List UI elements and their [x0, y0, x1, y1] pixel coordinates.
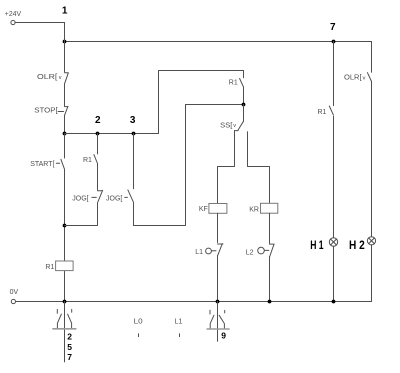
- wire riser node3: [158, 71, 160, 134]
- wire branch node2 down: [97, 134, 99, 226]
- svg-text:KR: KR: [249, 206, 259, 213]
- svg-text:0V: 0V: [10, 289, 19, 296]
- wire SS right throw to KR: [248, 132, 270, 204]
- wire jog branch to riser: [134, 225, 186, 227]
- junction dot node 3: [132, 132, 136, 136]
- svg-text:OLR[: OLR[: [37, 74, 57, 81]
- svg-text:L1: L1: [175, 319, 183, 326]
- limit switch L1 actuator circle: [206, 248, 212, 254]
- wire SS left throw to KF: [218, 131, 235, 204]
- wire SS feed: [186, 104, 244, 106]
- svg-text:1: 1: [62, 6, 68, 17]
- junction dot SS common: [242, 103, 246, 107]
- svg-text:R1: R1: [229, 80, 238, 87]
- wire branch node3 down: [133, 134, 135, 226]
- svg-text:H 1: H 1: [310, 238, 324, 252]
- wire top link: [159, 70, 244, 72]
- svg-text:START[: START[: [30, 161, 54, 168]
- wire riser right: [185, 105, 187, 226]
- contact JOG NC: [92, 190, 103, 202]
- connector X2 bar: [207, 328, 229, 330]
- wire parallel join left: [65, 225, 98, 227]
- junction dot 0V H1: [332, 300, 336, 304]
- connector X2 right pin: [219, 310, 225, 328]
- svg-text:R1: R1: [83, 157, 92, 164]
- junction dot node 7: [332, 40, 336, 44]
- wire left rail upper: [64, 23, 66, 134]
- junction dot node 2 left: [63, 132, 67, 136]
- wire R1 mid branch: [243, 71, 245, 105]
- svg-text:3: 3: [130, 115, 136, 126]
- contact JOG NO: [125, 190, 134, 202]
- limit switch L2 actuator circle: [258, 247, 265, 254]
- connector X1 tail wire: [64, 302, 66, 362]
- junction dot 0V KR: [268, 300, 272, 304]
- connector X1 right pin: [68, 309, 72, 328]
- svg-text:L2: L2: [246, 249, 254, 256]
- junction dot node 2: [96, 132, 100, 136]
- contact R1 mid (NO): [240, 79, 244, 87]
- limit switch L2 (NC): [265, 244, 275, 256]
- svg-text:v: v: [59, 75, 62, 81]
- svg-text:v: v: [233, 123, 236, 129]
- svg-text:v: v: [363, 75, 366, 81]
- coil KR: [261, 203, 278, 213]
- svg-text:R1: R1: [45, 264, 54, 271]
- svg-text:L0: L0: [134, 319, 143, 326]
- terminal mark under L0: [138, 334, 140, 337]
- contact R1 aux (NO): [94, 155, 98, 164]
- wire +24V feed: [15, 22, 64, 24]
- selector switch SS blade: [235, 122, 244, 131]
- svg-text:2: 2: [95, 115, 101, 126]
- wire KF branch lower: [217, 213, 219, 301]
- svg-text:7: 7: [330, 22, 336, 33]
- connector X2 tail wire: [217, 302, 219, 342]
- junction dot parallel join: [63, 224, 67, 228]
- svg-text:STOP[: STOP[: [34, 108, 57, 115]
- selector switch SS common stub: [243, 105, 245, 122]
- svg-text:OLR[: OLR[: [344, 74, 362, 81]
- connector X1 bar: [53, 328, 76, 330]
- connector X1 left pin: [57, 309, 61, 328]
- svg-text:JOG[: JOG[: [72, 196, 88, 203]
- connector X2 left pin: [210, 310, 214, 328]
- junction dot node 1: [63, 40, 67, 44]
- junction dot 0V KF: [216, 300, 220, 304]
- contact STOP (NC pushbutton): [58, 106, 68, 115]
- svg-text:H 2: H 2: [349, 238, 365, 252]
- svg-text:JOG[: JOG[: [106, 196, 122, 203]
- terminal mark under L1: [179, 334, 181, 337]
- wire rung node2-node3: [65, 133, 159, 135]
- svg-text:5: 5: [67, 342, 72, 352]
- terminal +24V: [11, 20, 15, 24]
- svg-text:+24V: +24V: [5, 11, 22, 18]
- svg-text:2: 2: [67, 331, 72, 341]
- svg-text:R1: R1: [318, 109, 327, 116]
- wire H2 branch: [371, 42, 373, 302]
- coil KF: [209, 204, 227, 214]
- svg-text:7: 7: [67, 352, 72, 362]
- wire KR branch lower: [269, 213, 271, 301]
- svg-text:9: 9: [221, 331, 226, 341]
- contact OLR left (NC): [65, 73, 69, 84]
- lamp H1: [329, 238, 337, 246]
- svg-text:L1: L1: [195, 249, 203, 256]
- wire top rail: [65, 41, 372, 43]
- coil R1: [56, 261, 74, 271]
- wire left rail middle: [64, 134, 66, 302]
- svg-text:SS[: SS[: [220, 122, 232, 129]
- terminal 0V: [11, 299, 15, 303]
- contact START (NO pushbutton): [56, 159, 64, 169]
- lamp H2: [367, 237, 375, 245]
- limit switch L1 (NC): [212, 244, 223, 256]
- svg-text:KF: KF: [199, 206, 208, 213]
- contact OLR right (NO): [367, 73, 371, 81]
- contact R1 right (NO): [329, 106, 333, 115]
- wire 0V rail: [16, 301, 372, 303]
- junction dot 0V left: [63, 300, 67, 304]
- wire H1 branch: [333, 42, 335, 302]
